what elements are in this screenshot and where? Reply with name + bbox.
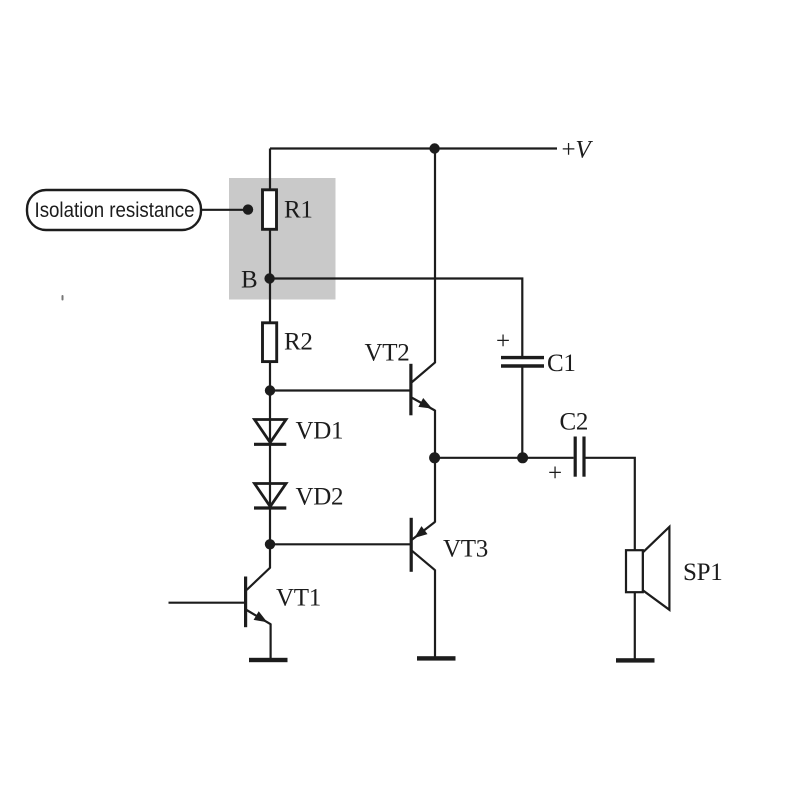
highlight box around R1 <box>229 178 336 300</box>
svg-text:Isolation resistance: Isolation resistance <box>35 199 195 222</box>
transistor VT1 <box>169 544 321 658</box>
node at R2/VD1/VT2-base junction <box>265 385 275 395</box>
svg-text:C1: C1 <box>547 350 576 377</box>
stray tick mark <box>62 295 64 301</box>
svg-text:VT1: VT1 <box>276 585 321 612</box>
svg-text:R1: R1 <box>284 196 313 223</box>
wire C1 to node <box>521 366 523 458</box>
svg-text:VT2: VT2 <box>365 339 410 366</box>
wire VT3 collector to ground <box>434 570 436 657</box>
ground under VT1 <box>249 658 288 662</box>
resistor R2 <box>263 323 313 362</box>
node B <box>241 267 275 294</box>
wire C2 to speaker <box>584 458 635 550</box>
svg-text:R2: R2 <box>284 329 313 356</box>
wire VT2 collector to rail <box>434 149 436 364</box>
wire speaker to ground <box>634 592 636 659</box>
node at VD2/VT1/VT3 junction <box>265 539 275 549</box>
svg-text:SP1: SP1 <box>683 559 722 586</box>
wire VT2 emitter to output node <box>434 410 436 458</box>
capacitor C2 <box>548 408 588 487</box>
callout: Isolation resistance <box>27 190 201 230</box>
svg-text:+: + <box>496 328 510 355</box>
wire output node to C1/C2 <box>435 457 574 459</box>
output node <box>429 452 440 463</box>
diode VD1 <box>254 418 343 445</box>
node under C1 <box>517 452 528 463</box>
wire R2 to node <box>269 362 271 391</box>
speaker SP1 <box>626 527 722 610</box>
wire rail to R1 <box>269 149 271 192</box>
wire output node to VT3 emitter <box>434 458 436 523</box>
ground under VT3 <box>417 656 456 660</box>
svg-text:+: + <box>548 460 562 487</box>
wire VD1 to VD2 <box>269 444 271 484</box>
resistor R1 <box>263 190 313 230</box>
wire node to VD1 <box>269 391 271 421</box>
svg-text:C2: C2 <box>560 408 589 435</box>
wire node B to R2 <box>269 279 271 324</box>
svg-text:VD1: VD1 <box>296 418 344 445</box>
transistor VT2 <box>365 339 436 415</box>
wire R1 to node B <box>269 230 271 279</box>
diode VD2 <box>254 484 343 511</box>
svg-text:VT3: VT3 <box>443 535 488 562</box>
wire node B to C1 branch <box>270 279 523 357</box>
svg-text:VD2: VD2 <box>296 484 344 511</box>
power rail +V wire <box>270 147 557 149</box>
wire node to VT3 base <box>270 543 411 545</box>
capacitor C1 <box>496 328 576 377</box>
node on power rail <box>429 143 439 153</box>
callout endpoint dot <box>243 204 253 214</box>
wire VD2 to lower node <box>269 508 271 544</box>
wire node to VT2 base <box>270 389 411 391</box>
transistor VT3 <box>411 518 488 572</box>
callout leader wire <box>201 209 247 211</box>
svg-text:B: B <box>241 267 257 294</box>
ground under speaker <box>616 658 655 662</box>
svg-text:+V: +V <box>562 137 594 164</box>
